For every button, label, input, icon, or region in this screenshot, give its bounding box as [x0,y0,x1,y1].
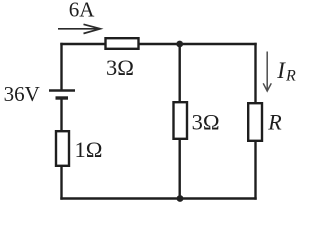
svg-text:IR: IR [276,58,296,85]
resistor R [248,103,262,141]
wire bottom horizontal [62,197,256,199]
wire right vertical lower [254,140,256,199]
svg-text:R: R [267,110,282,135]
node bottom junction [177,195,184,202]
wire left vertical middle (battery to 1-ohm) [60,99,62,132]
svg-text:3Ω: 3Ω [192,110,220,135]
resistor 3-ohm middle [174,102,188,139]
svg-text:3Ω: 3Ω [106,55,134,80]
resistor 3-ohm top [106,38,139,49]
battery 36V [49,91,75,99]
current arrow IR [263,52,271,92]
wire right vertical upper [254,44,256,104]
wire left vertical lower [60,165,62,199]
wire middle vertical lower [178,138,180,199]
svg-text:1Ω: 1Ω [75,137,103,162]
resistor 1-ohm [56,131,69,166]
current arrow 6A [58,24,100,33]
wire left vertical upper (battery top) [60,44,62,89]
svg-text:6A: 6A [69,0,96,22]
node top junction [176,41,183,48]
wire top-right horizontal [138,43,256,45]
wire middle vertical upper [178,44,180,103]
wire top-left horizontal [62,43,107,45]
svg-text:36V: 36V [4,82,40,106]
